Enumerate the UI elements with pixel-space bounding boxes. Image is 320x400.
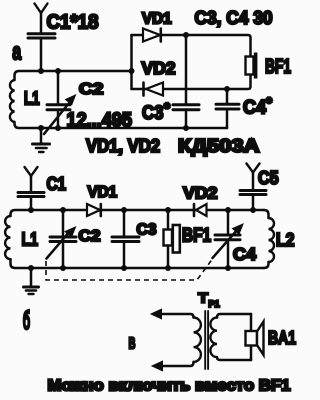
svg-text:C2: C2	[79, 228, 101, 245]
wire: speaker leads	[250, 314, 253, 360]
transformer core	[205, 311, 208, 369]
node: C2 bottom	[55, 125, 61, 131]
antenna WA	[35, 4, 48, 34]
node: C3* ground	[183, 125, 189, 131]
node: VD1 cathode junction	[183, 32, 189, 38]
svg-text:В: В	[129, 336, 136, 353]
node: C4 bottom	[225, 265, 231, 271]
svg-text:а: а	[12, 39, 21, 66]
ground (circuit b)	[24, 268, 39, 294]
svg-text:Р1: Р1	[209, 299, 220, 309]
svg-text:КД503А: КД503А	[178, 136, 259, 156]
capacitor C2 variable (circuit a)	[44, 71, 76, 134]
svg-text:C4: C4	[233, 244, 256, 264]
node: BF1 bottom	[165, 265, 171, 271]
wire: top rail (circuit b)	[31, 209, 264, 212]
svg-text:C3: C3	[137, 222, 157, 239]
node: C4* top	[224, 86, 230, 92]
svg-text:VD2: VD2	[142, 58, 176, 78]
arrow: primary top lead	[151, 309, 162, 319]
svg-text:BA1: BA1	[268, 327, 296, 348]
speaker BA1	[246, 322, 264, 356]
svg-text:C1*18: C1*18	[47, 11, 99, 34]
capacitor C4*	[216, 89, 239, 128]
capacitor C4 variable	[213, 210, 244, 268]
capacitor C5	[240, 191, 266, 211]
node: C4 top	[225, 207, 231, 213]
capacitor C3*	[173, 35, 199, 128]
diode VD1 (circuit b)	[87, 204, 101, 216]
svg-text:C4: C4	[243, 98, 266, 119]
svg-text:Т: Т	[198, 290, 208, 306]
arrow: primary bottom lead	[152, 361, 163, 371]
svg-text:C1: C1	[47, 174, 67, 194]
node: tank to detector	[129, 68, 135, 74]
svg-text:BF1: BF1	[265, 56, 291, 78]
inductor L2	[264, 210, 274, 268]
antenna WA (circuit b)	[25, 167, 38, 192]
capacitor C1* (antenna coupling)	[28, 34, 55, 71]
node: C3 top	[121, 207, 127, 213]
svg-text:L1: L1	[24, 89, 40, 109]
svg-text:VD1: VD1	[142, 11, 172, 28]
node: C5 bottom	[250, 207, 256, 213]
svg-text:12...495: 12...495	[67, 110, 133, 132]
node: tank top junction	[38, 68, 44, 74]
svg-text:б: б	[23, 305, 31, 335]
transformer T primary winding	[155, 314, 201, 366]
svg-text:C2: C2	[79, 81, 104, 98]
wire: VD2 rail to BF1 bottom	[132, 75, 251, 90]
diode VD1 (circuit a)	[143, 29, 161, 42]
ground (circuit a)	[33, 128, 50, 152]
svg-text:*: *	[266, 96, 272, 112]
earphone BF1 (circuit a)	[246, 53, 258, 79]
svg-text:*: *	[164, 100, 170, 117]
svg-text:Можно включить вместо BF1: Можно включить вместо BF1	[48, 378, 291, 395]
svg-text:VD1, VD2: VD1, VD2	[86, 136, 160, 156]
capacitor C3 (circuit b)	[112, 210, 139, 268]
svg-text:С3: С3	[142, 102, 164, 124]
earphone BF1 (circuit b)	[164, 210, 180, 268]
inductor L1 (circuit a)	[10, 71, 227, 128]
wire: bottom rail (circuit b)	[31, 267, 264, 270]
wire: top rail to BF1	[132, 35, 251, 57]
node: C2 top	[55, 68, 61, 74]
capacitor C1 (circuit b)	[18, 193, 44, 211]
svg-text:VD1: VD1	[88, 184, 118, 201]
svg-text:C5: C5	[258, 168, 279, 188]
svg-text:L2: L2	[276, 230, 295, 250]
svg-text:VD2: VD2	[183, 184, 218, 203]
capacitor C2 variable (circuit b)	[47, 210, 77, 268]
transformer T secondary winding	[210, 314, 251, 360]
inductor L1 (circuit b)	[5, 210, 31, 268]
wire: gang dashed link C2-C4	[46, 260, 212, 281]
diode VD2 (circuit a)	[144, 83, 164, 96]
node: C2 bottom (circuit b)	[60, 265, 66, 271]
wire: detector left vertical	[130, 35, 133, 89]
antenna C5 side	[247, 164, 260, 191]
svg-text:С3, С4 30: С3, С4 30	[195, 7, 273, 28]
svg-text:L1: L1	[22, 229, 39, 250]
svg-text:BF1: BF1	[182, 226, 211, 247]
node: C1 bottom (circuit b)	[28, 207, 34, 213]
node: ground wire left	[38, 125, 44, 131]
diode VD2 (circuit b)	[194, 204, 207, 216]
node: BF1 top	[165, 207, 171, 213]
node: C2 top (circuit b)	[60, 207, 66, 213]
node: C3 bottom	[121, 265, 127, 271]
node: ground (circuit b)	[28, 265, 34, 271]
